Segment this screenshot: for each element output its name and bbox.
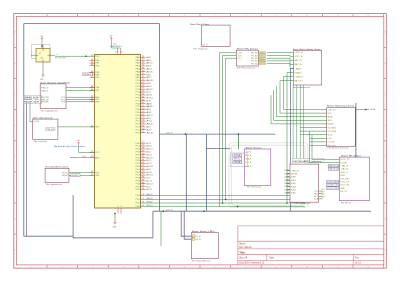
- svg-text:D50_IO: D50_IO: [146, 198, 153, 200]
- svg-text:2: 2: [62, 15, 63, 17]
- svg-text:RESET: RESET: [83, 74, 92, 76]
- svg-text:KEYBOARD_onboard: KEYBOARD_onboard: [294, 160, 322, 163]
- sheet pins Memory: [328, 109, 337, 147]
- svg-text:4: 4: [91, 64, 94, 66]
- svg-text:PIR_IN1: PIR_IN1: [251, 55, 258, 57]
- wire crystal to U1: [55, 55, 95, 57]
- svg-text:35: 35: [142, 185, 145, 187]
- svg-text:PD3: PD3: [136, 206, 140, 208]
- svg-text:A8: A8: [146, 102, 151, 105]
- svg-text:B: B: [385, 63, 386, 65]
- junction mid bus 2: [238, 133, 240, 135]
- svg-text:PA1: PA1: [136, 59, 140, 62]
- svg-text:PL5: PL5: [136, 129, 140, 131]
- oscillator X1 texts: [39, 53, 44, 59]
- svg-text:74: 74: [142, 67, 145, 69]
- wire aux to U1 AVCC: [70, 157, 95, 159]
- svg-text:7: 7: [91, 76, 94, 78]
- svg-text:41: 41: [142, 168, 145, 170]
- bus bottom-left horizontal: [24, 235, 73, 237]
- junction crystal wire: [85, 55, 87, 57]
- ground symbol crystal: [42, 75, 45, 77]
- sheet pins RF: [340, 159, 350, 193]
- svg-text:AD7: AD7: [146, 76, 151, 79]
- global label boxes LEDs: [192, 235, 195, 240]
- svg-text:78: 78: [142, 56, 145, 58]
- svg-text:KB2: KB2: [291, 183, 296, 185]
- svg-text:72: 72: [142, 73, 145, 75]
- svg-text:44: 44: [142, 159, 145, 161]
- svg-text:PK7: PK7: [136, 186, 140, 188]
- bus left purple vertical: [26, 103, 28, 236]
- wire +5V down to crystal: [41, 41, 43, 49]
- svg-text:5: 5: [154, 266, 155, 268]
- svg-text:PK6: PK6: [136, 160, 140, 162]
- svg-text:+3.3V: +3.3V: [328, 142, 336, 144]
- svg-text:D4_IO: D4_IO: [340, 191, 348, 193]
- svg-text:PA6: PA6: [136, 73, 140, 76]
- svg-text:+5V_IO: +5V_IO: [328, 109, 337, 111]
- svg-text:TMR_SIG: TMR_SIG: [46, 129, 55, 131]
- svg-text:A18: A18: [146, 131, 152, 134]
- svg-text:PD0: PD0: [136, 195, 140, 197]
- svg-text:PA3: PA3: [136, 65, 140, 68]
- svg-text:PG1: PG1: [136, 112, 140, 114]
- svg-text:2: 2: [62, 266, 63, 268]
- svg-text:62: 62: [142, 102, 145, 104]
- svg-text:PE6: PE6: [95, 87, 99, 89]
- svg-text:PG5: PG5: [95, 56, 99, 58]
- global labels SDA SCL screen: [233, 154, 243, 164]
- svg-text:PC7: PC7: [136, 100, 140, 102]
- svg-text:D52_IO: D52_IO: [146, 205, 153, 207]
- svg-text:12: 12: [367, 266, 369, 268]
- junction bus lower 2: [203, 210, 205, 212]
- svg-text:PD2: PD2: [136, 203, 140, 205]
- svg-text:46: 46: [142, 153, 145, 155]
- svg-text:3: 3: [91, 62, 94, 64]
- svg-text:GPIO2: GPIO2: [259, 58, 265, 60]
- svg-text:PK3: PK3: [136, 152, 140, 154]
- svg-text:KSDA: KSDA: [291, 173, 298, 176]
- labels RADAR left: [25, 96, 40, 104]
- hierarchical sheet AutoReset: [45, 168, 69, 182]
- svg-text:BAT_IO: BAT_IO: [295, 80, 304, 83]
- svg-text:PA5: PA5: [136, 70, 140, 73]
- svg-text:+VAL_A: +VAL_A: [340, 165, 349, 168]
- wire U1 to ground: [114, 214, 116, 223]
- svg-text:File: keyboard.sch: File: keyboard.sch: [295, 203, 311, 205]
- svg-text:58: 58: [142, 114, 145, 116]
- svg-text:68: 68: [142, 85, 145, 87]
- svg-text:SOCKET_ON: SOCKET_ON: [327, 185, 338, 187]
- svg-text:PK1: PK1: [136, 146, 140, 148]
- svg-text:Id: 1/1: Id: 1/1: [355, 263, 362, 265]
- svg-text:37: 37: [142, 179, 145, 181]
- svg-text:+5V_IO: +5V_IO: [166, 209, 174, 211]
- group box outer: [229, 143, 308, 208]
- svg-text:File: clock.sch: File: clock.sch: [34, 141, 47, 143]
- power flag +5V reset: [78, 142, 80, 145]
- wires battery bottom to keypad labels: [293, 85, 304, 159]
- svg-text:ADC13: ADC13: [146, 180, 151, 183]
- svg-text:File: RF.sch: File: RF.sch: [341, 203, 351, 205]
- svg-text:A17: A17: [146, 128, 151, 131]
- svg-text:ADC12: ADC12: [146, 177, 150, 180]
- svg-text:B: B: [15, 63, 16, 65]
- svg-text:52: 52: [142, 131, 145, 133]
- svg-text:AD1: AD1: [146, 59, 151, 62]
- svg-text:SCL_B: SCL_B: [245, 162, 252, 164]
- svg-text:AD3: AD3: [146, 65, 150, 68]
- svg-text:ADC7: ADC7: [146, 162, 151, 165]
- svg-text:GND0: GND0: [328, 124, 334, 126]
- wire battery pin8 staircase: [280, 81, 327, 113]
- mcu U1 left pins: [90, 55, 101, 177]
- svg-text:PL3: PL3: [136, 124, 140, 126]
- svg-text:ADC3: ADC3: [146, 151, 150, 154]
- wire rangefinder ping1 to U1: [66, 87, 95, 89]
- svg-text:VALUE_A: VALUE_A: [329, 164, 339, 167]
- svg-text:PG2: PG2: [136, 103, 140, 105]
- svg-text:AD15: AD15: [146, 99, 150, 102]
- svg-text:A13: A13: [146, 117, 150, 120]
- svg-text:+VAL_B: +VAL_B: [340, 168, 349, 171]
- wire battery pin7 staircase: [284, 77, 327, 110]
- svg-text:PK2: PK2: [136, 172, 140, 174]
- boxed label TMR_SIG: [46, 128, 56, 131]
- svg-text:A9: A9: [146, 105, 152, 108]
- svg-text:+KPAD_SCL: +KPAD_SCL: [291, 169, 300, 172]
- hierarchical sheet Battery: [294, 51, 322, 86]
- svg-text:PC0: PC0: [136, 80, 140, 82]
- svg-text:D5_IO: D5_IO: [196, 236, 202, 238]
- svg-text:43: 43: [142, 162, 145, 164]
- svg-text:40: 40: [142, 171, 145, 173]
- pin numbers U1 top: [115, 52, 123, 54]
- svg-text:60: 60: [142, 108, 145, 110]
- svg-text:PD2: PD2: [95, 127, 99, 129]
- svg-text:VBAT2: VBAT2: [295, 71, 302, 74]
- ground symbol below U1: [114, 223, 117, 225]
- svg-text:RADAR_GATE: RADAR_GATE: [25, 100, 40, 103]
- wire PIR in1 vertical: [219, 53, 236, 207]
- svg-text:AD11: AD11: [146, 88, 152, 91]
- power flag +5V crystal: [41, 37, 43, 40]
- svg-text:SCL_A: SCL_A: [245, 154, 252, 157]
- svg-text:A15: A15: [146, 123, 152, 126]
- sheet pins Keypad: [285, 169, 326, 200]
- svg-text:PC5: PC5: [136, 95, 140, 97]
- svg-text:SOCKET_CMD: SOCKET_CMD: [327, 188, 338, 190]
- svg-text:48: 48: [142, 148, 145, 150]
- svg-text:45: 45: [142, 156, 145, 158]
- wire memory top right: [355, 109, 369, 111]
- wire rangefinder to clock: [30, 103, 33, 122]
- svg-text:PC4: PC4: [136, 92, 140, 94]
- svg-text:39: 39: [142, 174, 145, 176]
- svg-text:PL6: PL6: [136, 132, 140, 134]
- svg-text:AD2: AD2: [146, 62, 152, 65]
- svg-text:AD4: AD4: [146, 68, 151, 71]
- svg-text:PK5: PK5: [136, 181, 140, 183]
- wire reset to U1: [69, 174, 95, 176]
- svg-text:PC2: PC2: [136, 86, 140, 88]
- sheet pins StatusLEDs: [196, 236, 202, 241]
- sheet pins PIR: [237, 53, 257, 66]
- svg-text:ADC2: ADC2: [146, 148, 152, 151]
- svg-text:63: 63: [142, 99, 145, 101]
- aux box around RADAR labels: [24, 96, 42, 104]
- svg-text:66: 66: [142, 91, 145, 93]
- svg-text:H: H: [15, 249, 16, 251]
- svg-text:GPIO0: GPIO0: [259, 52, 265, 54]
- svg-text:A10: A10: [146, 108, 150, 111]
- svg-text:AD10: AD10: [146, 85, 151, 88]
- svg-text:PIR_IN4: PIR_IN4: [251, 63, 258, 65]
- svg-text:CLOCK: CLOCK: [34, 121, 40, 123]
- svg-text:A16: A16: [146, 126, 150, 129]
- svg-text:GPIO3: GPIO3: [259, 61, 265, 63]
- svg-text:71: 71: [142, 76, 145, 78]
- svg-text:PK2: PK2: [136, 149, 140, 151]
- mcu U1 body: [95, 55, 141, 209]
- svg-text:File: Power.sch: File: Power.sch: [194, 49, 208, 51]
- pin stubs U1 bottom: [118, 208, 121, 214]
- svg-text:77: 77: [142, 59, 145, 61]
- svg-text:KB4: KB4: [291, 190, 296, 192]
- svg-text:ADC10: ADC10: [146, 171, 151, 174]
- sheet pins Screen: [245, 152, 252, 168]
- svg-text:57: 57: [142, 117, 145, 119]
- junction staircase: [286, 202, 288, 204]
- svg-text:Sheet: /: Sheet: /: [239, 243, 246, 246]
- svg-text:PA4: PA4: [136, 68, 140, 71]
- svg-text:SCL: SCL: [328, 120, 333, 122]
- svg-text:49: 49: [142, 145, 145, 147]
- svg-text:VALUE_B: VALUE_B: [329, 168, 339, 171]
- svg-text:65: 65: [142, 94, 145, 96]
- svg-text:56: 56: [142, 120, 145, 122]
- wire rangefinder pwr2 to U1: [66, 99, 95, 101]
- svg-text:11: 11: [337, 15, 339, 17]
- svg-text:10: 10: [115, 52, 117, 54]
- svg-text:AD14: AD14: [146, 97, 152, 100]
- bus to status LEDs pin1: [181, 211, 191, 236]
- svg-text:PC3: PC3: [136, 89, 140, 91]
- mcu U1 right pins upper bank: [136, 56, 153, 135]
- svg-text:ADC9: ADC9: [146, 168, 150, 171]
- svg-text:BAT_B: BAT_B: [295, 59, 303, 62]
- wire green drop at 161: [160, 211, 162, 246]
- wire PIR in2 vertical: [223, 56, 237, 204]
- svg-text:PE7: PE7: [95, 90, 99, 92]
- svg-text:File: rangefinder.sch: File: rangefinder.sch: [41, 110, 58, 112]
- global label RESET box: [71, 174, 80, 177]
- svg-text:PL0: PL0: [136, 115, 140, 117]
- svg-text:KB5: KB5: [291, 193, 296, 195]
- global label RESET at U1: [83, 73, 93, 76]
- wire crystal to ground: [42, 67, 44, 75]
- svg-text:RESET: RESET: [72, 175, 81, 177]
- bus right of MCU vertical: [159, 24, 161, 212]
- svg-text:+5: +5: [56, 54, 58, 56]
- svg-text:SOCK_CMD: SOCK_CMD: [340, 185, 350, 187]
- svg-text:Title:: Title:: [239, 250, 246, 254]
- svg-text:H: H: [385, 249, 386, 251]
- svg-text:73: 73: [142, 70, 145, 72]
- svg-text:PL4: PL4: [136, 127, 140, 129]
- svg-text:67: 67: [142, 88, 145, 90]
- global labels VALUE SOCKET: [327, 164, 340, 189]
- svg-text:2: 2: [91, 59, 94, 61]
- svg-text:10: 10: [306, 15, 308, 17]
- junction crystal top: [41, 45, 43, 47]
- svg-text:KB3: KB3: [291, 186, 296, 188]
- bus lower long horizontal: [153, 210, 371, 212]
- wire battery pin5 staircase: [291, 69, 294, 212]
- svg-text:File: Screen.sch: File: Screen.sch: [247, 186, 261, 188]
- oscillator X1 body: [36, 49, 50, 63]
- svg-text:SOCK_STATE: SOCK_STATE: [340, 177, 350, 180]
- wire rangefinder pwr1 to U1: [66, 96, 95, 98]
- svg-text:PE2: PE2: [95, 65, 99, 67]
- svg-text:12: 12: [367, 15, 369, 17]
- svg-text:E: E: [15, 156, 16, 158]
- svg-text:7: 7: [215, 266, 216, 268]
- wire battery pin6 staircase: [287, 73, 294, 204]
- svg-text:17: 17: [142, 198, 145, 200]
- hierarchical sheet RF: [339, 157, 369, 201]
- title block frame: [238, 226, 384, 265]
- bus mid vertical: [185, 134, 187, 211]
- svg-text:PA2: PA2: [136, 62, 140, 65]
- svg-text:A14: A14: [146, 120, 151, 123]
- svg-text:PA7: PA7: [136, 76, 140, 79]
- svg-text:SCL: SCL: [234, 159, 241, 161]
- svg-text:16: 16: [142, 202, 145, 204]
- svg-text:11: 11: [337, 266, 339, 268]
- svg-text:GND: GND: [340, 188, 345, 190]
- bus to status LEDs pin2: [184, 211, 191, 239]
- svg-text:PH2: PH2: [95, 101, 99, 103]
- aux box around crystal: [32, 45, 51, 58]
- wire reset rst to U1: [69, 172, 95, 174]
- svg-text:38: 38: [142, 177, 145, 179]
- svg-text:AD6: AD6: [146, 73, 150, 76]
- svg-text:PK4: PK4: [136, 154, 140, 156]
- svg-text:PA0: PA0: [136, 56, 140, 59]
- svg-text:File: autoreset.sch: File: autoreset.sch: [46, 183, 62, 186]
- svg-text:54: 54: [142, 125, 145, 127]
- net label CLKOUT: [55, 54, 67, 60]
- svg-text:SD_MISO: SD_MISO: [328, 127, 337, 129]
- svg-text:55: 55: [142, 123, 145, 125]
- svg-text:BAT_A: BAT_A: [295, 63, 303, 66]
- svg-text:PING_IO: PING_IO: [41, 90, 49, 92]
- svg-text:AD9: AD9: [146, 82, 150, 85]
- hierarchical sheet Keypad: [290, 164, 319, 202]
- bus jog vertical: [72, 195, 74, 238]
- svg-text:SD_MOSI: SD_MOSI: [328, 131, 337, 133]
- svg-text:File: PIR_sensor.sch: File: PIR_sensor.sch: [237, 68, 255, 70]
- svg-text:Sheet: Memory_Device: Sheet: Memory_Device: [327, 104, 355, 107]
- wire +5V to U1 VCC: [79, 145, 95, 152]
- wire bus drop to screen: [238, 134, 240, 149]
- bus screen drop: [206, 134, 230, 211]
- svg-text:My boards don’t have errors: My boards don’t have errors: [54, 145, 85, 148]
- svg-text:15: 15: [142, 205, 145, 207]
- junction memory wire: [365, 109, 367, 111]
- svg-text:CLK_OUT_SYS: CLK_OUT_SYS: [55, 58, 67, 60]
- junction wire d4: [237, 206, 239, 208]
- hierarchical sheet StatusLEDs: [191, 233, 218, 259]
- svg-text:RESET: RESET: [62, 175, 69, 177]
- svg-text:ADC1: ADC1: [146, 145, 151, 148]
- bus bottom-mid horizontal: [73, 237, 153, 239]
- svg-text:7: 7: [215, 15, 216, 17]
- svg-text:AD0: AD0: [146, 56, 150, 59]
- junction wire d5: [225, 199, 227, 201]
- svg-text:76: 76: [142, 62, 145, 64]
- svg-text:+12V_B: +12V_B: [295, 52, 304, 54]
- svg-text:53: 53: [142, 128, 145, 130]
- junction bus lower 1: [163, 210, 165, 212]
- svg-text:ADC11: ADC11: [146, 174, 152, 177]
- svg-text:PC6: PC6: [136, 98, 140, 100]
- svg-text:36: 36: [142, 182, 145, 184]
- svg-text:SOCKET_STATE: SOCKET_STATE: [327, 180, 338, 183]
- svg-text:SDA_B: SDA_B: [245, 165, 252, 168]
- svg-text:Rev:: Rev:: [355, 257, 359, 259]
- svg-text:5: 5: [154, 15, 155, 17]
- svg-text:KiCad E.D.A. eeschema 5.1.5: KiCad E.D.A. eeschema 5.1.5: [239, 262, 265, 265]
- svg-text:D49_IO: D49_IO: [146, 194, 153, 196]
- svg-text:ADC4: ADC4: [146, 153, 151, 156]
- svg-text:PWR_GATE: PWR_GATE: [41, 101, 49, 104]
- pin stub U1 top 2: [119, 48, 121, 54]
- wire +5V to U1 top: [111, 41, 120, 49]
- svg-text:PL1: PL1: [136, 118, 140, 120]
- svg-text:+5V_IO: +5V_IO: [245, 152, 252, 154]
- svg-text:ADC16: ADC16: [146, 188, 151, 191]
- svg-text:PE5: PE5: [95, 77, 99, 79]
- svg-text:PK5: PK5: [136, 157, 140, 159]
- wires into Memory sheet: [271, 86, 339, 163]
- svg-text:69: 69: [142, 82, 145, 84]
- svg-text:PD1: PD1: [136, 199, 140, 201]
- svg-text:PC1: PC1: [136, 83, 140, 85]
- svg-text:File: main.sch: File: main.sch: [239, 247, 252, 249]
- junction wire d3: [222, 202, 224, 204]
- bus memory right purple: [355, 103, 357, 157]
- svg-text:AD12: AD12: [146, 91, 150, 94]
- svg-text:ATMEGA1280: ATMEGA1280: [110, 45, 122, 48]
- svg-text:F: F: [385, 187, 386, 189]
- hierarchical sheet Power: [201, 25, 230, 46]
- svg-text:GPIO4: GPIO4: [259, 63, 265, 65]
- bus mid horizontal: [160, 133, 276, 135]
- svg-text:ADC8: ADC8: [146, 165, 152, 168]
- svg-text:+12V_A: +12V_A: [295, 55, 304, 58]
- svg-text:E: E: [385, 156, 386, 158]
- svg-text:D+GND: D+GND: [340, 162, 347, 164]
- svg-text:PIR_IN3: PIR_IN3: [251, 61, 258, 63]
- svg-text:61: 61: [142, 105, 145, 107]
- hierarchical sheet RangeFinder: [40, 84, 66, 109]
- wire PIR in3 vertical: [226, 58, 237, 199]
- pin texts U1 bottom: [117, 206, 122, 208]
